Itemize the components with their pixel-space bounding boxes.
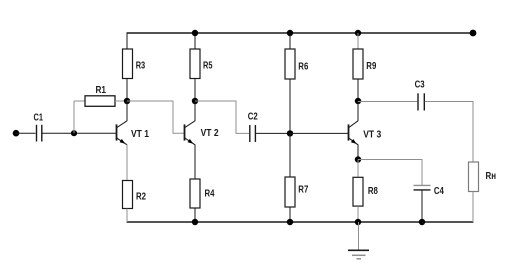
node top R5 [192, 30, 198, 36]
resistor R5 [190, 49, 213, 79]
svg-text:C4: C4 [434, 186, 444, 197]
resistor R6 [285, 49, 309, 79]
svg-text:R4: R4 [205, 189, 215, 200]
svg-text:R9: R9 [366, 61, 376, 72]
capacitor C2 [248, 111, 258, 142]
wire R6 to node C [289, 79, 291, 133]
capacitor C4 [414, 185, 445, 197]
wire input to C1 [16, 132, 36, 134]
resistor R8 [353, 177, 378, 206]
svg-text:C3: C3 [415, 80, 425, 91]
svg-text:R3: R3 [136, 61, 146, 72]
wire VT2 emitter to R4 [194, 145, 196, 180]
wire bottom rail [127, 221, 474, 223]
wire node B to C2 [195, 101, 249, 133]
wire node E to C4 [358, 160, 422, 186]
resistor R7 [285, 177, 309, 207]
resistor R9 [353, 49, 377, 79]
wire VT1 emitter to R2 [126, 145, 128, 181]
resistor R3 [123, 49, 146, 79]
node C4 bottom [419, 219, 425, 225]
wire R2 to rail [126, 209, 128, 223]
wire feedback vertical [73, 101, 75, 133]
svg-text:R1: R1 [96, 85, 107, 96]
wire Rn to rail [472, 192, 474, 223]
wire R4 to rail [194, 208, 196, 222]
wire rail to R9 [357, 33, 359, 49]
resistor Rn load [469, 162, 497, 192]
node input junction [71, 130, 77, 136]
wire rail to R6 [289, 33, 291, 49]
transistor VT2 [185, 121, 219, 145]
svg-text:VT 1: VT 1 [131, 129, 149, 140]
wire top rail [127, 32, 474, 34]
node top R9 [355, 30, 361, 36]
wire node C to VT3 base [290, 132, 349, 134]
wire R5 to node B [194, 79, 196, 102]
node R7 bottom [287, 219, 293, 225]
svg-text:VT 2: VT 2 [201, 128, 219, 139]
wire node A to VT2 base [127, 101, 185, 133]
capacitor C1 [34, 112, 44, 141]
svg-text:VT 3: VT 3 [363, 130, 381, 141]
wire VT1 collector [126, 101, 128, 121]
wire node D to C3 [358, 101, 417, 103]
svg-text:C2: C2 [248, 111, 258, 122]
wire VT2 collector [194, 101, 196, 121]
wire VT3 collector [357, 101, 359, 121]
wire node E to R8 [357, 160, 359, 178]
svg-text:R7: R7 [298, 185, 308, 196]
node D [355, 98, 361, 104]
wire R9 to node D [357, 79, 359, 101]
wire R8 to rail [357, 206, 359, 222]
wire C2 to node C [256, 132, 290, 134]
wire R3 to node A [126, 79, 128, 102]
node R8 bottom [355, 219, 361, 225]
resistor R1 [74, 85, 127, 107]
capacitor C3 [415, 80, 425, 111]
terminal top right [470, 30, 477, 37]
svg-text:C1: C1 [34, 112, 44, 123]
node E emitter [355, 156, 361, 162]
resistor R4 [190, 179, 215, 208]
resistor R2 [123, 181, 147, 209]
node B [192, 98, 198, 104]
node C [287, 130, 293, 136]
ground [348, 222, 369, 259]
svg-text:R5: R5 [203, 61, 213, 72]
transistor VT1 [117, 121, 150, 145]
svg-text:Rн: Rн [486, 171, 497, 182]
wire C1 to VT1 base [43, 132, 117, 134]
transistor VT3 [349, 121, 382, 145]
svg-text:R2: R2 [136, 192, 146, 203]
node R4 bottom [192, 219, 198, 225]
wire R7 to rail [289, 207, 291, 222]
node top R6 [287, 30, 293, 36]
wire rail to R5 [194, 33, 196, 49]
wire C3 to Rn [425, 102, 473, 163]
wire VT3 emitter [357, 145, 359, 160]
input terminal [13, 130, 20, 137]
wire node C to R7 [289, 133, 291, 177]
svg-text:R6: R6 [298, 61, 308, 72]
node A [124, 98, 130, 104]
wire rail to R3 [126, 33, 128, 49]
wire C4 to rail [421, 191, 423, 223]
svg-text:R8: R8 [368, 186, 378, 197]
